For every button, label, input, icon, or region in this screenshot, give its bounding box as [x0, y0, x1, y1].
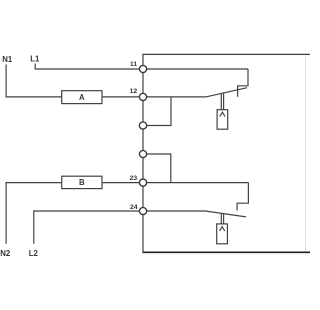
svg-text:N1: N1 — [2, 55, 13, 64]
terminal (unlabeled, upper) — [139, 122, 146, 129]
svg-text:B: B — [79, 178, 85, 187]
mechanical linkage 1 — [221, 93, 223, 110]
wire terminal 23 to fixed contact 2 — [146, 182, 248, 184]
terminal 11 — [130, 61, 147, 73]
terminal 12 — [130, 88, 147, 100]
svg-text:A: A — [79, 93, 85, 102]
svg-text:L1: L1 — [30, 55, 40, 64]
wire L1 to terminal 11 — [35, 64, 140, 70]
mechanical linkage 2 — [221, 213, 223, 224]
device outline bottom edge — [142, 251, 310, 253]
svg-text:12: 12 — [130, 88, 138, 95]
device outline right edge (faint) — [305, 55, 307, 252]
svg-text:24: 24 — [130, 204, 138, 211]
actuator flag box 1 — [217, 110, 228, 130]
fixed contact 1 (step and nub) — [238, 69, 248, 97]
actuator flag box 2 — [217, 224, 228, 244]
svg-text:11: 11 — [130, 61, 137, 68]
terminal 24 — [130, 204, 147, 215]
terminal 23 — [130, 175, 147, 186]
wire box A to terminal 12 — [102, 96, 140, 98]
svg-text:L2: L2 — [29, 249, 39, 258]
terminal bus (device left edge) — [142, 54, 144, 252]
load box B — [62, 176, 102, 188]
svg-text:N2: N2 — [0, 249, 11, 258]
wire N1 to box A — [6, 65, 62, 97]
wire terminal 12 and moving blade of contact 1 — [146, 88, 247, 97]
terminal (unlabeled, lower) — [139, 150, 146, 157]
jumper fourth terminal to wire 23 — [146, 154, 171, 183]
jumper terminal 12 to third terminal — [146, 97, 171, 126]
wire N2 to box B — [6, 183, 62, 244]
fixed contact 2 (step and nub) — [237, 183, 248, 211]
wire terminal 11 to fixed contact 1 — [146, 68, 248, 70]
wire L2 to terminal 24 — [34, 211, 140, 244]
wire box B to terminal 23 — [102, 182, 140, 184]
wire terminal 24 and moving blade of contact 2 — [146, 211, 246, 217]
device outline top edge — [142, 53, 310, 55]
svg-text:23: 23 — [130, 175, 138, 182]
load box A — [62, 91, 102, 104]
